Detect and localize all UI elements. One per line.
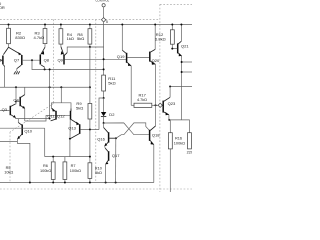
svg-text:Q4: Q4 (13, 97, 19, 102)
svg-text:Q13: Q13 (68, 126, 76, 131)
transistor Q9 (58, 47, 104, 65)
svg-text:5kΩ: 5kΩ (108, 81, 115, 86)
node R2 rail dot (8, 24, 10, 26)
dashed vertical boundary right (159, 4, 161, 192)
resistor R8 (77, 25, 92, 48)
dashed vertical boundary mid (95, 19, 97, 182)
wire branch to x99 column (99, 98, 104, 130)
transistor Q4 (13, 87, 25, 121)
node R12 rail dot (171, 24, 173, 26)
wire Q7-Q8 base link (22, 59, 41, 61)
svg-text:Q16: Q16 (97, 136, 105, 141)
node dot (89, 129, 91, 131)
svg-text:100kΩ: 100kΩ (174, 142, 185, 146)
transistor Q17 (105, 146, 121, 182)
wire Q3 emitter bus y118.6 (16, 118, 50, 120)
resistor R4 (59, 25, 74, 47)
resistor R5 (label only, body clipped) (4, 166, 13, 174)
node dot (181, 71, 183, 73)
wire R10 column (89, 130, 91, 163)
wire diamond to Q23 base (161, 104, 163, 106)
svg-text:OR: OR (0, 5, 5, 10)
wire Q19-Q20 link (127, 57, 149, 59)
transistor Q12 (57, 108, 79, 124)
node base link dot (31, 59, 33, 61)
wire base dot drop (31, 60, 33, 69)
wire base drop to rail (115, 138, 117, 182)
wire Q20 emitter column (155, 64, 157, 105)
node R8 bottom dot (89, 46, 91, 48)
top-left clipped block label text (0, 1, 5, 10)
node Q20 rail dot (154, 24, 156, 26)
wire output bus y86.5 (170, 86, 192, 88)
node dots on rail (29, 182, 31, 184)
wire mid column x49.6 (49, 69, 51, 118)
dashed vertical boundary left-mid (53, 19, 55, 103)
svg-text:Q9: Q9 (58, 58, 64, 63)
node dot (89, 156, 91, 158)
wire divider column R8 to R9 (89, 47, 91, 104)
wire branch y62 (182, 61, 192, 63)
resistor R12 (155, 25, 174, 49)
node Q8 collector dot (44, 68, 46, 70)
transistor Q7 (9, 47, 22, 71)
VCC rail (0, 24, 192, 26)
svg-text:Q21: Q21 (181, 43, 189, 48)
node R8 rail dot (89, 24, 91, 26)
wire base bus y115.3 (46, 114, 70, 116)
wire emitter stub (60, 87, 62, 103)
svg-text:100kΩ: 100kΩ (70, 169, 81, 173)
transistor Q19 (117, 25, 131, 106)
pin 5 diamond node (101, 18, 107, 24)
wire Q18 node column (155, 105, 157, 126)
svg-text:CONTROL: CONTROL (96, 0, 110, 3)
transistor Q21 (178, 25, 190, 57)
node dot (15, 86, 17, 88)
svg-text:10kΩ: 10kΩ (4, 171, 13, 175)
dashed block boundary top (0, 18, 160, 20)
transistor Q16 (97, 123, 116, 146)
wire base bus y59.3 (65, 58, 127, 60)
svg-text:100kΩ: 100kΩ (40, 169, 51, 173)
dashed bottom boundary (0, 188, 192, 190)
transistor Q20 (150, 25, 160, 65)
svg-text:4.7kΩ: 4.7kΩ (137, 98, 147, 102)
node dot (103, 58, 105, 60)
wire output node bus y119.9 (169, 120, 190, 133)
node R12 bottom dot (171, 48, 173, 50)
node Q23 emitter dot (168, 119, 170, 121)
node R17 right dot (155, 104, 157, 106)
svg-text:Q20: Q20 (152, 58, 160, 63)
svg-text:Q19: Q19 (117, 54, 125, 59)
ground (14, 71, 20, 74)
svg-text:Q10: Q10 (24, 129, 32, 134)
wire Q3/Q4 node column (15, 87, 17, 104)
transistor Q13 (68, 122, 80, 139)
svg-text:220: 220 (187, 150, 192, 154)
svg-text:Q23: Q23 (168, 101, 176, 106)
wire bottom bus y156.6 (45, 156, 90, 158)
resistor R7 (63, 157, 81, 183)
svg-text:6.8kΩ: 6.8kΩ (155, 37, 166, 42)
svg-text:5kΩ: 5kΩ (76, 105, 83, 110)
node R4 rail dot (60, 24, 62, 26)
resistor R11 (102, 75, 116, 98)
transistor Q10 (0, 119, 45, 183)
svg-text:Q7: Q7 (14, 58, 20, 63)
resistor R6 (40, 157, 55, 183)
svg-text:D2: D2 (109, 112, 115, 117)
node Q19 rail dot (121, 24, 123, 26)
transistor Q8 (40, 47, 49, 69)
svg-text:Q18: Q18 (152, 132, 160, 137)
node dot (169, 86, 171, 88)
svg-text:5kΩ: 5kΩ (95, 171, 102, 175)
svg-text:1kΩ: 1kΩ (67, 36, 74, 41)
node dot (49, 118, 51, 120)
node Q16 base dot (115, 137, 117, 139)
wire R12 to Q21 base (172, 48, 177, 50)
svg-text:5: 5 (106, 20, 108, 24)
svg-text:R6: R6 (43, 164, 48, 168)
dashed block boundary right block top (160, 3, 192, 5)
svg-text:R5: R5 (6, 166, 11, 170)
node dot (52, 156, 54, 158)
node R3 rail dot (44, 24, 46, 26)
node D2 bottom dot (103, 122, 105, 124)
wire drop to bus (69, 139, 71, 157)
wire Q21 emitter column (181, 56, 183, 120)
wire pin5 column mid (103, 47, 105, 75)
svg-text:Q8: Q8 (44, 57, 50, 62)
node divider column junction dot (89, 86, 91, 88)
dashed vertical boundary lower-left (9, 132, 11, 183)
wire Q4 collector bus y121 + riser (25, 115, 46, 121)
wire long bus y87.25 (0, 86, 90, 88)
node Q13 emitter dot (69, 138, 71, 140)
wire branch y72 (182, 71, 192, 73)
node dot (49, 86, 51, 88)
svg-text:R10: R10 (95, 166, 102, 170)
wire left stub y141.5 (0, 141, 17, 143)
node dot (15, 101, 17, 103)
diode D2 (101, 98, 115, 123)
wire emitter bus y69.4 (32, 68, 104, 70)
svg-text:R16: R16 (175, 136, 182, 140)
transistor Q3 (0, 104, 16, 119)
node dot (60, 86, 62, 88)
node Q21 rail dot (180, 24, 182, 26)
output diamond node (158, 103, 162, 107)
wire upper-left to lower-right (104, 123, 149, 135)
svg-text:5kΩ: 5kΩ (77, 36, 84, 41)
svg-text:Q17: Q17 (112, 153, 120, 158)
resistor R16 (168, 120, 185, 192)
svg-text:Q11: Q11 (47, 114, 55, 119)
wire flip-flop left link y129.5 (80, 129, 99, 131)
node dot (103, 68, 105, 70)
svg-text:Q3: Q3 (2, 107, 8, 112)
bottom ground rail (0, 182, 154, 184)
transistor Q6 (clipped at left edge) (0, 47, 9, 87)
svg-text:R7: R7 (71, 164, 76, 168)
node dot (49, 68, 51, 70)
wire lower-left to upper-right (116, 123, 149, 138)
node dot (181, 61, 183, 63)
transistor Q18 (150, 126, 161, 183)
resistor R3 (34, 25, 47, 48)
pin 5 terminal circle (96, 0, 110, 18)
resistor R17 (horizontal) (131, 93, 158, 108)
transistor Q23 (163, 87, 176, 120)
resistor R15 (clipped at right) (187, 133, 193, 155)
wire Q4 base stub (16, 101, 19, 103)
resistor R9 (76, 101, 92, 130)
node R11 bottom dot (103, 97, 105, 99)
wire Q12 emitter drop (69, 120, 71, 139)
transistor Q11 (47, 103, 71, 121)
svg-text:4.7kΩ: 4.7kΩ (34, 35, 45, 40)
resistor R2 (7, 25, 25, 48)
svg-text:Q12: Q12 (57, 114, 65, 119)
resistor R10 (88, 163, 102, 183)
wire pin5 column upper (103, 22, 105, 47)
dashed diagonal boundary (10, 104, 54, 133)
svg-text:830Ω: 830Ω (15, 35, 25, 40)
